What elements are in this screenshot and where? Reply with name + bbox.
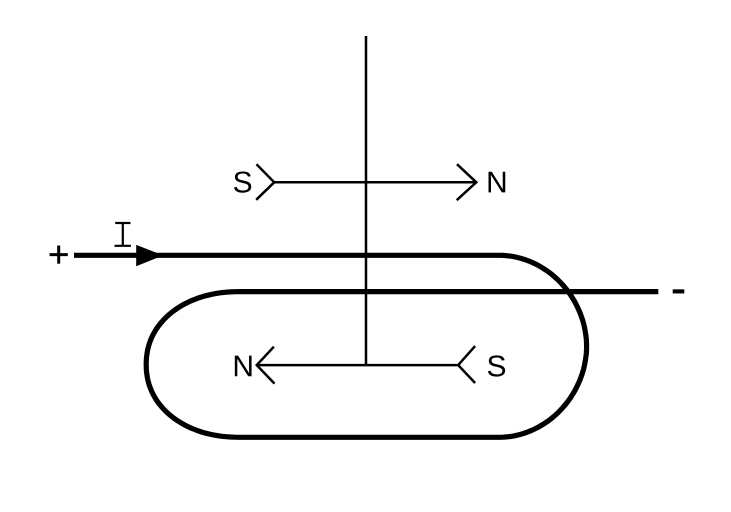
bottom needle tail chevron (S end) bbox=[458, 346, 475, 383]
label S (top needle) bbox=[234, 171, 251, 192]
top needle arrowhead (N end) bbox=[457, 164, 477, 200]
plus terminal bbox=[50, 246, 68, 264]
top compass needle shaft bbox=[274, 181, 476, 184]
label N (bottom needle) bbox=[235, 356, 252, 377]
top needle tail chevron (S end) bbox=[256, 164, 274, 200]
current label I bbox=[115, 223, 131, 246]
current-carrying wire loop bbox=[74, 255, 658, 437]
label N (top needle) bbox=[489, 172, 506, 193]
vertical axis line bbox=[365, 36, 368, 365]
minus terminal bbox=[673, 289, 685, 293]
current direction arrowhead on wire bbox=[136, 245, 163, 266]
bottom compass needle shaft bbox=[257, 364, 459, 367]
label S (bottom needle) bbox=[488, 355, 505, 376]
bottom needle arrowhead (N end) bbox=[257, 347, 275, 384]
